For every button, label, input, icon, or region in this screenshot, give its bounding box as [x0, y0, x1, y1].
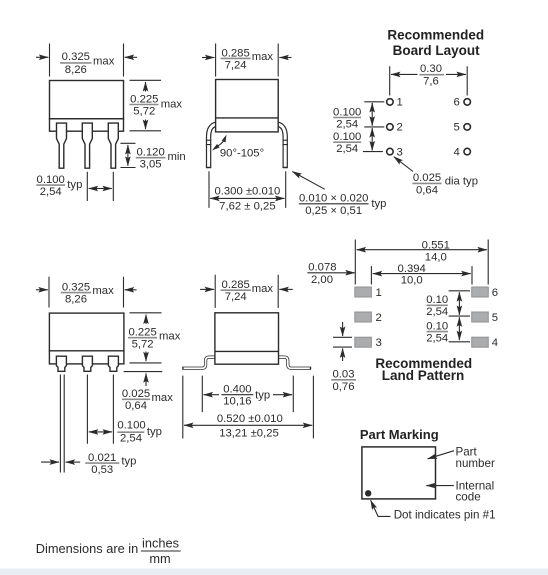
svg-text:max: max [93, 55, 115, 67]
svg-text:Part Marking: Part Marking [360, 427, 439, 442]
svg-text:7,24: 7,24 [225, 291, 247, 303]
svg-text:0.225: 0.225 [130, 93, 158, 105]
svg-text:mm: mm [149, 551, 170, 566]
svg-text:Land Pattern: Land Pattern [382, 368, 465, 383]
svg-text:2,54: 2,54 [336, 118, 358, 130]
svg-text:10,16: 10,16 [223, 396, 251, 408]
svg-text:4: 4 [454, 146, 460, 158]
svg-text:2,54: 2,54 [336, 143, 358, 155]
svg-text:Dimensions are in: Dimensions are in [36, 541, 138, 556]
svg-text:0.03: 0.03 [333, 369, 355, 381]
svg-text:max: max [252, 51, 274, 63]
svg-text:0.100: 0.100 [333, 106, 361, 118]
svg-text:Dot indicates pin #1: Dot indicates pin #1 [394, 508, 496, 521]
svg-text:0,64: 0,64 [416, 184, 438, 196]
svg-text:0.300 ±0.010: 0.300 ±0.010 [214, 186, 280, 198]
svg-text:7,6: 7,6 [423, 76, 439, 88]
svg-text:6: 6 [454, 97, 460, 109]
svg-text:min: min [168, 151, 186, 163]
svg-text:13,21 ±0,25: 13,21 ±0,25 [219, 427, 279, 439]
svg-text:0.285: 0.285 [222, 279, 250, 291]
svg-text:0,53: 0,53 [91, 464, 113, 476]
svg-text:0.10: 0.10 [426, 320, 448, 332]
svg-text:1: 1 [397, 97, 403, 109]
svg-text:inches: inches [142, 536, 179, 551]
svg-text:0.078: 0.078 [308, 262, 336, 274]
svg-text:0.394: 0.394 [398, 263, 426, 275]
svg-text:0,25 × 0,51: 0,25 × 0,51 [305, 205, 362, 217]
svg-text:0.100: 0.100 [333, 131, 361, 143]
svg-text:3,05: 3,05 [140, 159, 162, 171]
svg-text:max: max [92, 285, 114, 297]
svg-text:Board Layout: Board Layout [393, 43, 481, 58]
svg-text:2: 2 [376, 312, 382, 324]
svg-text:2,54: 2,54 [120, 433, 142, 445]
svg-text:typ: typ [147, 426, 162, 438]
svg-text:0.021: 0.021 [88, 452, 116, 464]
svg-text:0,76: 0,76 [333, 381, 355, 393]
svg-text:0.025: 0.025 [413, 172, 441, 184]
svg-text:0.551: 0.551 [422, 239, 450, 251]
svg-text:max: max [252, 283, 274, 295]
svg-text:1: 1 [376, 287, 382, 299]
svg-text:3: 3 [376, 337, 382, 349]
svg-text:max: max [152, 392, 174, 404]
svg-text:0.120: 0.120 [136, 147, 164, 159]
svg-text:2,54: 2,54 [426, 306, 448, 318]
svg-text:0.025: 0.025 [122, 388, 150, 400]
svg-text:2,54: 2,54 [40, 186, 62, 198]
svg-text:2,00: 2,00 [311, 274, 333, 286]
svg-text:8,26: 8,26 [65, 294, 87, 306]
svg-text:14,0: 14,0 [425, 251, 447, 263]
svg-text:10,0: 10,0 [401, 275, 423, 287]
svg-text:2: 2 [397, 122, 403, 134]
svg-text:7,62 ± 0,25: 7,62 ± 0,25 [219, 201, 275, 213]
svg-text:0.325: 0.325 [62, 281, 90, 293]
svg-text:0.010 × 0.020: 0.010 × 0.020 [299, 193, 368, 205]
svg-text:4: 4 [492, 337, 498, 349]
svg-text:0,64: 0,64 [125, 400, 147, 412]
svg-text:0.325: 0.325 [62, 51, 90, 63]
svg-text:typ: typ [67, 179, 82, 191]
svg-text:0.400: 0.400 [223, 384, 251, 396]
svg-text:Recommended: Recommended [387, 27, 484, 42]
svg-text:typ: typ [255, 389, 270, 401]
svg-text:code: code [456, 490, 481, 503]
svg-text:dia typ: dia typ [445, 176, 478, 188]
svg-text:5,72: 5,72 [132, 339, 154, 351]
svg-text:3: 3 [397, 146, 403, 158]
svg-text:6: 6 [492, 287, 498, 299]
svg-text:0.100: 0.100 [117, 420, 145, 432]
svg-text:typ: typ [371, 198, 386, 210]
svg-text:0.30: 0.30 [420, 63, 442, 75]
svg-text:0.10: 0.10 [426, 294, 448, 306]
svg-text:number: number [456, 457, 495, 470]
svg-text:0.100: 0.100 [37, 174, 65, 186]
svg-text:5: 5 [492, 312, 498, 324]
svg-text:5: 5 [454, 122, 460, 134]
svg-text:5,72: 5,72 [133, 105, 155, 117]
svg-text:8,26: 8,26 [65, 64, 87, 76]
svg-text:max: max [161, 98, 183, 110]
svg-text:0.225: 0.225 [128, 327, 156, 339]
svg-text:0.520 ±0.010: 0.520 ±0.010 [217, 413, 283, 425]
svg-text:2,54: 2,54 [426, 333, 448, 345]
svg-text:max: max [159, 330, 181, 342]
svg-text:7,24: 7,24 [225, 59, 247, 71]
svg-text:typ: typ [121, 456, 136, 468]
svg-text:90°-105°: 90°-105° [220, 148, 264, 160]
